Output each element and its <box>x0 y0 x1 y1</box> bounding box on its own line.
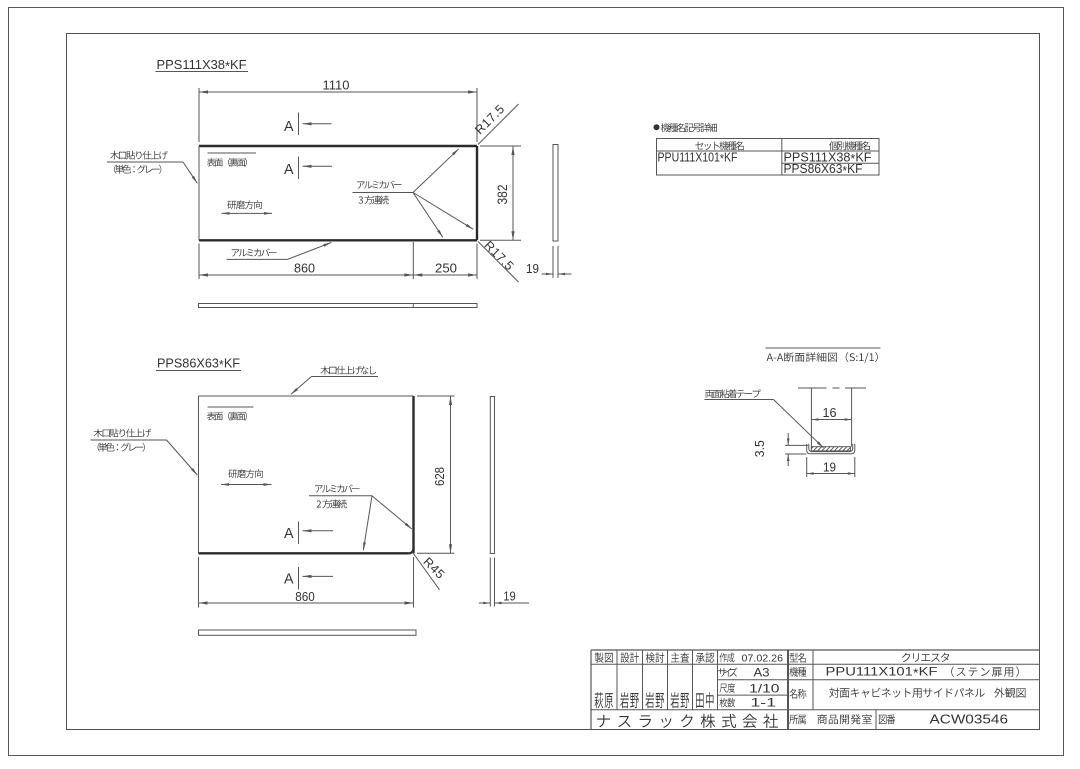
title block outline <box>591 649 1040 651</box>
svg-text:A3: A3 <box>754 668 770 680</box>
A-A section title with overline <box>766 347 881 349</box>
dimension 860 lower drawing <box>198 557 200 608</box>
bottom view thin bar with joint at 860 <box>199 304 478 308</box>
corner radius R17.5 bottom-right <box>478 242 519 283</box>
label 両面粘着テープ with leader to tape <box>705 389 761 398</box>
svg-text:PPS86X63*KF: PPS86X63*KF <box>157 356 240 373</box>
label 研磨方向 with double arrow (polish direction) <box>227 200 261 209</box>
bottom view thin bar lower <box>199 630 417 635</box>
label 表面(裏面) with overline <box>208 152 257 154</box>
label 木口仕上げなし with leader to top edge <box>321 366 377 375</box>
svg-text:PPS86X63*KF: PPS86X63*KF <box>784 162 863 178</box>
title block 作成 07.02.26 <box>720 653 735 663</box>
svg-text:PPU111X101*KF: PPU111X101*KF <box>826 665 938 681</box>
label アルミカバー bottom leader <box>232 249 277 257</box>
title block 尺度 1/10 <box>720 683 736 693</box>
table header ●機種名記号詳細 <box>654 124 660 130</box>
svg-text:19: 19 <box>823 459 836 474</box>
svg-text:860: 860 <box>295 589 315 604</box>
title block サイズ A3 <box>718 668 737 677</box>
svg-text:19: 19 <box>526 261 539 276</box>
svg-text:A: A <box>284 161 294 178</box>
label 木口貼り仕上げ (単色:グレー) leader lower drawing <box>94 429 152 438</box>
svg-text:A: A <box>284 571 294 588</box>
dimension 19 outer width <box>806 457 808 477</box>
dimension 860 / 250 bottom <box>198 244 200 280</box>
label 木口貼り仕上げ (単色:グレー) with leader to left edge <box>110 151 168 160</box>
title block 名称 対面キャビネット用サイドパネル 外観図 <box>789 689 806 699</box>
svg-text:628: 628 <box>432 467 447 486</box>
svg-text:ACW03546: ACW03546 <box>930 712 1009 727</box>
svg-text:19: 19 <box>503 589 516 604</box>
corner arc R45 bottom-right <box>409 549 414 554</box>
svg-text:07.02.26: 07.02.26 <box>742 652 784 664</box>
side view thin bar (19 thick) <box>553 145 558 242</box>
side view thin bar lower (19 thick) <box>490 397 494 554</box>
title block 型名 クリエスタ <box>790 653 806 663</box>
corner radius R45 leader <box>412 552 440 590</box>
label アルミカバー 3方連続 with 3 leader arrows <box>357 181 401 189</box>
label アルミカバー 2方連続 with 2 leader arrows <box>315 485 359 493</box>
svg-text:16: 16 <box>823 405 837 420</box>
panel PPS111X38 outline: top/right/bottom aluminum (thick), left thin <box>199 145 477 147</box>
title block 機種 PPU111X101*KF(ステン扉用) <box>789 667 806 677</box>
title block rows <box>591 663 1040 665</box>
A-A section panel edges with break line <box>810 388 812 447</box>
title block signature columns <box>616 650 618 710</box>
dimension 628 right side <box>417 395 455 397</box>
label 研磨方向 lower drawing <box>228 469 262 478</box>
svg-text:250: 250 <box>435 261 457 276</box>
dimension 1110 top <box>198 88 200 142</box>
svg-text:1-1: 1-1 <box>751 695 777 709</box>
svg-text:382: 382 <box>495 185 510 205</box>
title block headers 製図 設計 検討 主査 承認 <box>595 652 613 662</box>
company name ナスラック株式会社 <box>597 714 778 728</box>
signature stamps 萩原 岩野 岩野 岩野 田中 <box>595 692 614 708</box>
tape hatched rectangle in section <box>811 447 850 451</box>
aluminum channel cross-section (U shape) <box>807 444 855 454</box>
panel PPS86X63 outline: right/bottom aluminum thick, top/left thin <box>199 395 414 397</box>
dimension 16 inner width <box>811 419 851 421</box>
label 表面(裏面) lower drawing <box>208 406 254 408</box>
svg-text:3.5: 3.5 <box>752 440 767 457</box>
dimension 19 lower side view <box>489 558 491 607</box>
title block 所属 商品開発室 図番 ACW03546 <box>789 714 806 724</box>
svg-text:A: A <box>284 118 294 135</box>
svg-text:A: A <box>284 525 294 542</box>
machine name table <box>657 139 880 176</box>
svg-text:1110: 1110 <box>323 78 350 93</box>
dimension 3.5 height <box>785 444 808 446</box>
svg-text:PPU111X101*KF: PPU111X101*KF <box>658 150 738 166</box>
dimension 382 right side <box>480 145 521 147</box>
svg-text:1/10: 1/10 <box>749 681 780 695</box>
dimension 19 side view <box>552 246 554 278</box>
title block 枚数 1-1 <box>720 698 736 708</box>
svg-text:860: 860 <box>294 261 315 276</box>
title block center divider <box>787 650 789 730</box>
corner radius R17.5 top-right <box>478 104 519 145</box>
table header 個別機種名 <box>829 141 870 150</box>
table header セット機種名 <box>695 141 744 150</box>
